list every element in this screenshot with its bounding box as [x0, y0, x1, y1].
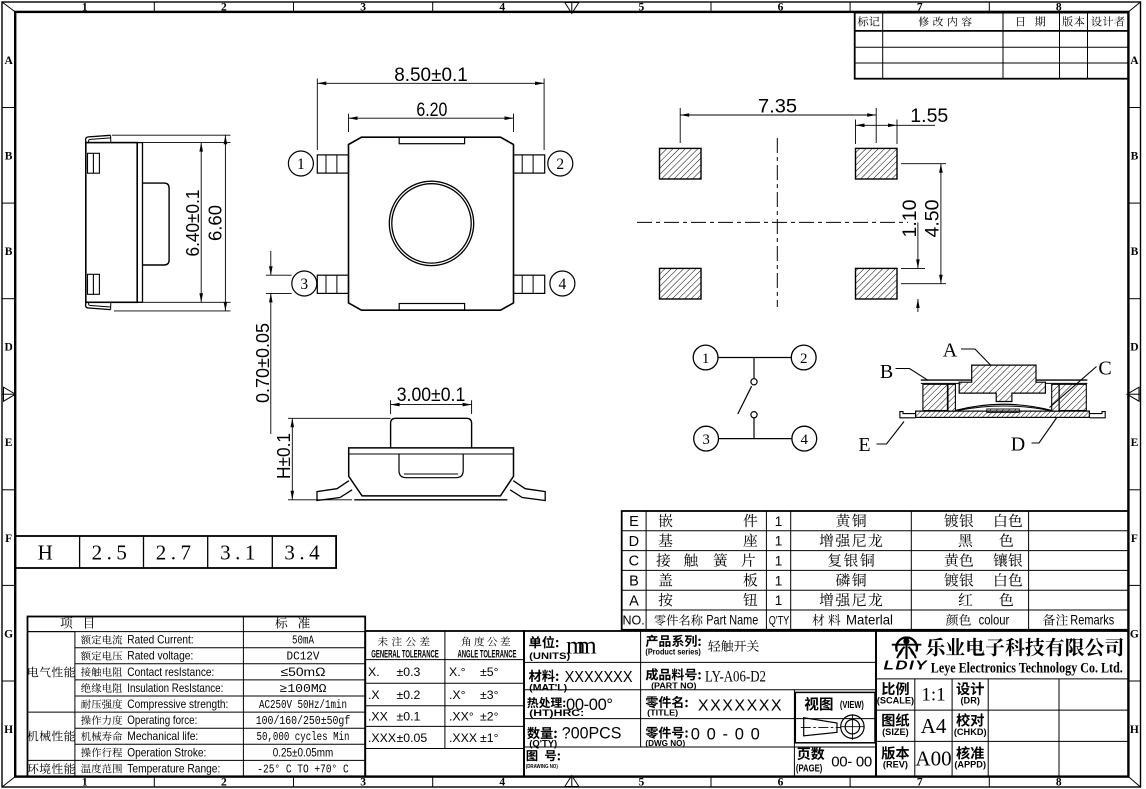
- svg-text:(SIZE): (SIZE): [882, 727, 909, 737]
- svg-text:Mechanical life:: Mechanical life:: [127, 729, 198, 743]
- svg-text:1: 1: [775, 534, 783, 549]
- svg-text:5: 5: [639, 777, 645, 789]
- svg-text:Operation Stroke:: Operation Stroke:: [127, 745, 206, 759]
- svg-text:1: 1: [82, 1, 88, 13]
- svg-text:3: 3: [360, 1, 366, 13]
- svg-text:B: B: [5, 246, 13, 258]
- svg-text:2: 2: [221, 1, 227, 13]
- svg-text:D: D: [1130, 342, 1138, 354]
- svg-text:X.: X.: [368, 665, 380, 679]
- svg-text:6.20: 6.20: [416, 100, 447, 121]
- svg-text:F: F: [5, 533, 12, 545]
- svg-text:Compressive strength:: Compressive strength:: [127, 697, 228, 711]
- svg-text:1:1: 1:1: [921, 685, 945, 706]
- svg-text:Temperature Range:: Temperature Range:: [127, 761, 220, 775]
- svg-text:(TITLE): (TITLE): [647, 707, 678, 717]
- svg-text:H: H: [38, 541, 58, 565]
- svg-text:Contact resIstance:: Contact resIstance:: [127, 665, 214, 679]
- svg-text:100/160/250±50gf: 100/160/250±50gf: [256, 715, 351, 728]
- svg-text:Remarks: Remarks: [1070, 613, 1114, 628]
- svg-text:.XX°: .XX°: [449, 710, 474, 724]
- svg-text:Materlal: Materlal: [846, 613, 893, 628]
- svg-text:8: 8: [1056, 1, 1062, 13]
- svg-text:?00PCS: ?00PCS: [562, 723, 622, 742]
- svg-text:1: 1: [775, 554, 783, 569]
- svg-text:colour: colour: [979, 613, 1010, 628]
- svg-text:E: E: [5, 437, 13, 449]
- svg-text:6: 6: [778, 777, 784, 789]
- svg-text:3: 3: [702, 432, 710, 448]
- svg-text:.XXX: .XXX: [449, 731, 477, 745]
- svg-text:GENERAL TOLERANCE: GENERAL TOLERANCE: [371, 648, 439, 660]
- svg-text:00- 00: 00- 00: [831, 754, 872, 771]
- svg-text:50,000 cycles Min: 50,000 cycles Min: [257, 731, 350, 744]
- svg-text:±1°: ±1°: [480, 731, 499, 745]
- svg-text:Q'TY: Q'TY: [769, 614, 790, 628]
- svg-text:AC250V 50Hz/1min: AC250V 50Hz/1min: [259, 699, 347, 712]
- svg-text:±2°: ±2°: [480, 710, 499, 724]
- svg-text:0.70±0.05: 0.70±0.05: [253, 323, 273, 403]
- svg-text:5: 5: [639, 1, 645, 13]
- svg-text:A: A: [4, 55, 13, 67]
- svg-text:(PART NO): (PART NO): [651, 680, 697, 690]
- svg-text:Rated Current:: Rated Current:: [127, 633, 193, 647]
- svg-text:00-00°: 00-00°: [566, 696, 613, 714]
- svg-text:A: A: [1130, 55, 1139, 67]
- svg-text:1: 1: [297, 156, 305, 173]
- svg-text:(MAT'L): (MAT'L): [529, 682, 567, 693]
- svg-text:G: G: [1130, 628, 1139, 640]
- svg-text:E: E: [629, 514, 639, 530]
- svg-text:(PAGE): (PAGE): [796, 764, 823, 775]
- svg-text:LY-A06-D2: LY-A06-D2: [705, 667, 766, 686]
- svg-text:2: 2: [800, 351, 808, 367]
- svg-text:1: 1: [775, 514, 783, 529]
- svg-text:4: 4: [499, 777, 505, 789]
- svg-text:D: D: [4, 342, 12, 354]
- svg-text:B: B: [1131, 246, 1139, 258]
- svg-text:(DR): (DR): [961, 695, 980, 705]
- svg-text:C: C: [1098, 358, 1111, 380]
- svg-text:6: 6: [778, 1, 784, 13]
- svg-text:8.50±0.1: 8.50±0.1: [394, 65, 468, 86]
- svg-text:7.35: 7.35: [758, 97, 797, 118]
- svg-text:F: F: [1131, 533, 1138, 545]
- svg-text:8: 8: [1056, 777, 1062, 789]
- svg-text:(DWG NO): (DWG NO): [645, 738, 685, 748]
- svg-text:NO.: NO.: [622, 614, 644, 628]
- svg-text:1: 1: [702, 351, 710, 367]
- svg-text:6.40±0.1: 6.40±0.1: [182, 190, 203, 257]
- svg-text:(DRAWING NO): (DRAWING NO): [526, 764, 558, 770]
- svg-text:7: 7: [917, 777, 923, 789]
- svg-text:4: 4: [801, 432, 809, 448]
- svg-text:B: B: [1131, 151, 1139, 163]
- svg-text:mm: mm: [566, 633, 597, 660]
- svg-text:A4: A4: [921, 714, 947, 738]
- svg-text:B: B: [880, 361, 893, 383]
- svg-text:ANGLE TOLERANCE: ANGLE TOLERANCE: [458, 648, 517, 660]
- svg-text:(Product series): (Product series): [645, 647, 701, 656]
- svg-text:≤50mΩ: ≤50mΩ: [281, 665, 326, 679]
- svg-text:3: 3: [360, 777, 366, 789]
- svg-text:XXXXXXX: XXXXXXX: [565, 669, 633, 686]
- svg-text:.XXX: .XXX: [368, 731, 396, 745]
- svg-text:±0.2: ±0.2: [397, 688, 421, 702]
- svg-text:Insulation ResIstance:: Insulation ResIstance:: [127, 681, 223, 695]
- svg-text:(UNITS): (UNITS): [529, 651, 570, 662]
- svg-text:±5°: ±5°: [480, 665, 499, 679]
- svg-text:(SCALE): (SCALE): [877, 695, 914, 705]
- svg-text:E: E: [858, 434, 870, 456]
- svg-text:3.1: 3.1: [220, 541, 260, 565]
- svg-text:H±0.1: H±0.1: [274, 433, 294, 479]
- svg-text:4: 4: [559, 276, 567, 293]
- svg-text:2: 2: [221, 777, 227, 789]
- svg-text:1: 1: [82, 777, 88, 789]
- svg-text:X.°: X.°: [449, 665, 466, 679]
- svg-text:±0.3: ±0.3: [397, 665, 421, 679]
- svg-text:0.25±0.05mm: 0.25±0.05mm: [273, 745, 333, 759]
- svg-text:1.55: 1.55: [910, 106, 948, 127]
- svg-text:A00: A00: [915, 746, 951, 770]
- svg-text:1: 1: [775, 593, 783, 608]
- svg-text:2.5: 2.5: [92, 541, 132, 565]
- svg-text:A: A: [629, 593, 639, 609]
- svg-text:B: B: [5, 151, 13, 163]
- svg-text:DC12V: DC12V: [287, 651, 320, 664]
- svg-text:B: B: [629, 574, 639, 590]
- svg-text:7: 7: [917, 1, 923, 13]
- svg-text:.X°: .X°: [449, 688, 466, 702]
- svg-text:(REV): (REV): [883, 760, 908, 770]
- svg-text:.XX: .XX: [368, 710, 388, 724]
- svg-text:±0.1: ±0.1: [397, 710, 421, 724]
- svg-text:2: 2: [556, 156, 564, 173]
- svg-text:≥100MΩ: ≥100MΩ: [280, 683, 327, 696]
- svg-text:E: E: [1131, 437, 1139, 449]
- svg-text:±3°: ±3°: [480, 688, 499, 702]
- svg-text:XXXXXXX: XXXXXXX: [698, 698, 782, 715]
- svg-text:3.4: 3.4: [284, 541, 324, 565]
- svg-text:Leye Electronics Technology Co: Leye Electronics Technology Co. Ltd.: [931, 661, 1123, 677]
- svg-text:3: 3: [300, 276, 308, 293]
- svg-text:50mA: 50mA: [292, 635, 314, 648]
- svg-text:D: D: [629, 534, 639, 550]
- svg-text:(CHKD): (CHKD): [954, 727, 987, 737]
- svg-text:2.7: 2.7: [156, 541, 196, 565]
- svg-text:(APPD): (APPD): [954, 760, 986, 770]
- svg-text:4.50: 4.50: [923, 200, 944, 238]
- svg-text:1.10: 1.10: [900, 200, 921, 238]
- svg-text:A: A: [943, 340, 958, 362]
- svg-text:3.00±0.1: 3.00±0.1: [397, 385, 466, 406]
- svg-text:Rated voltage:: Rated voltage:: [127, 649, 193, 663]
- svg-text:H: H: [4, 724, 13, 736]
- svg-text:LDIY: LDIY: [884, 658, 929, 673]
- svg-text:4: 4: [499, 1, 505, 13]
- svg-text:Part Name: Part Name: [706, 613, 758, 628]
- svg-text:.X: .X: [368, 688, 380, 702]
- svg-text:6.60: 6.60: [205, 205, 226, 241]
- svg-text:C: C: [629, 554, 639, 570]
- svg-text:-25° C TO +70° C: -25° C TO +70° C: [257, 763, 348, 776]
- svg-text:1: 1: [775, 573, 783, 588]
- svg-text:G: G: [4, 628, 13, 640]
- svg-text:±0.05: ±0.05: [397, 731, 428, 745]
- svg-text:Operating force:: Operating force:: [127, 713, 197, 727]
- svg-text:(VIEW): (VIEW): [840, 700, 864, 711]
- svg-text:D: D: [1011, 434, 1025, 456]
- svg-text:(Q'TY): (Q'TY): [529, 738, 557, 749]
- svg-text:H: H: [1130, 724, 1139, 736]
